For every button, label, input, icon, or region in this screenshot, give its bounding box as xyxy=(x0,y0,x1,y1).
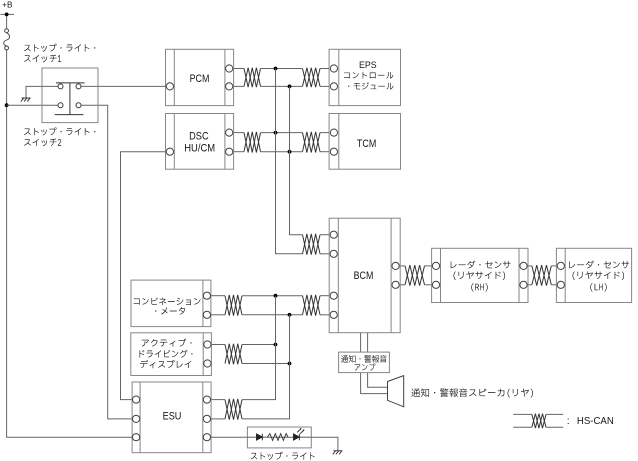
junction CAN-H trunk at ADD xyxy=(274,343,278,347)
wire +B rail upper segment xyxy=(6,14,8,28)
legend wire top right xyxy=(546,413,563,415)
module active driving display box xyxy=(131,333,212,376)
svg-text:HS-CAN: HS-CAN xyxy=(577,416,614,427)
wire CAN-H trunk upper xyxy=(276,69,303,254)
module EPS connector strip xyxy=(338,49,340,105)
module DSC HU/CM connector strip xyxy=(224,114,226,170)
wire into RH CAN-H xyxy=(425,265,432,267)
legend wire top xyxy=(513,413,532,415)
wire into RH CAN-L xyxy=(425,284,432,286)
module combination meter pin 2 xyxy=(203,311,210,318)
twisted pair DSC H/L left xyxy=(244,132,261,153)
module DSC HU/CM pin 1 xyxy=(166,148,173,155)
switch contact 1a xyxy=(58,84,63,89)
junction CAN-L trunk at PCM xyxy=(288,85,292,89)
label radar LH line3 xyxy=(590,283,606,291)
wire switch1 to ground xyxy=(26,86,58,97)
junction rail to switch2 xyxy=(5,103,9,107)
twisted pair PCM H/L right xyxy=(303,68,321,88)
module radar sensor LH connector strip xyxy=(564,248,566,302)
wire into LH CAN-L xyxy=(551,284,556,286)
wire into BCM pin4 xyxy=(320,314,329,316)
module radar sensor RH box xyxy=(432,248,528,302)
label amplifier line1 xyxy=(341,355,387,363)
module radar sensor RH pin 3 xyxy=(520,262,527,269)
wire stop light to ground xyxy=(311,437,338,450)
label stop light xyxy=(251,452,315,460)
wire amp to speaker minus xyxy=(361,373,388,394)
module BCM pin 4 xyxy=(330,311,337,318)
wire PCM to EPS CAN-L mid xyxy=(261,85,303,87)
label radar LH line2 xyxy=(573,271,625,280)
wire DSC to TCM CAN-L xyxy=(234,151,244,153)
twisted pair PCM H/L left xyxy=(244,68,261,88)
junction CAN-H trunk at combi xyxy=(274,294,278,298)
wire ESU CAN-L xyxy=(211,418,225,420)
wire ADD CAN-H xyxy=(211,344,225,346)
module DSC HU/CM connector strip xyxy=(173,114,175,170)
switch contact 2a xyxy=(58,103,63,108)
module EPS pin 2 xyxy=(330,83,337,90)
wire amp to speaker plus xyxy=(368,373,388,388)
svg-text::: : xyxy=(567,416,570,427)
wire combi CAN-L xyxy=(211,314,225,316)
twisted pair combi right xyxy=(303,295,321,316)
legend wire bottom xyxy=(513,426,532,428)
ground G1 xyxy=(21,98,31,102)
wire CAN-L trunk lower xyxy=(242,315,290,419)
label combination meter line1 xyxy=(134,297,201,305)
LED D2 xyxy=(294,434,300,441)
wire PCM to EPS CAN-L xyxy=(234,85,244,87)
twisted pair combi left xyxy=(225,295,242,316)
wire combi CAN-H xyxy=(211,295,225,297)
speaker SP1 xyxy=(388,376,404,407)
wire CAN-L into EPS xyxy=(320,85,329,87)
module radar sensor RH pin 2 xyxy=(432,281,439,288)
junction CAN-H trunk at PCM xyxy=(274,67,278,71)
svg-text:EPS: EPS xyxy=(359,60,377,71)
junction CAN-L trunk at ADD xyxy=(288,362,292,366)
label ADD line3 xyxy=(140,360,191,368)
wire into LH CAN-H xyxy=(551,265,556,267)
module PCM pin 1 xyxy=(166,83,173,90)
wire into BCM pin1 xyxy=(320,234,329,236)
label radar LH line1 xyxy=(569,261,629,269)
svg-text:TCM: TCM xyxy=(357,138,376,150)
module EPS box xyxy=(329,49,400,105)
module DSC HU/CM box xyxy=(166,114,234,170)
module BCM connector strip xyxy=(390,218,392,333)
junction CAN-L trunk at DSC xyxy=(288,150,292,154)
wire DSC to TCM CAN-L mid xyxy=(261,151,303,153)
module DSC HU/CM pin 2 xyxy=(226,129,233,136)
module ESU connector strip xyxy=(139,382,141,453)
wire into BCM pin2 xyxy=(320,253,329,255)
twisted pair ADD xyxy=(225,344,242,365)
module ESU pin 5 xyxy=(203,415,210,422)
junction CAN-L trunk at combi xyxy=(288,313,292,317)
legend twisted pair xyxy=(532,414,546,429)
switch armature link xyxy=(69,83,71,115)
module radar sensor RH pin 4 xyxy=(520,281,527,288)
svg-text:HU/CM: HU/CM xyxy=(184,142,215,154)
legend wire bottom right xyxy=(546,426,563,428)
module combination meter box xyxy=(131,280,211,327)
module radar sensor LH pin 1 xyxy=(557,262,564,269)
module BCM connector strip xyxy=(337,218,339,333)
label ADD line2 xyxy=(140,350,193,358)
module combination meter connector strip xyxy=(202,280,204,327)
label stop light switch2 line2 xyxy=(24,139,61,147)
svg-text:PCM: PCM xyxy=(190,73,210,85)
module BCM pin 6 xyxy=(392,281,399,288)
wire ESU CAN-H xyxy=(211,399,225,401)
label ADD line1 xyxy=(142,339,192,347)
module PCM pin 2 xyxy=(226,65,233,72)
svg-text:BCM: BCM xyxy=(354,270,374,282)
wire CAN-L into TCM xyxy=(320,151,329,153)
twisted pair BCM upper xyxy=(303,234,321,255)
switch contact 1b xyxy=(76,84,81,89)
wire BCM to amp right xyxy=(367,333,369,352)
module PCM pin 3 xyxy=(226,83,233,90)
label radar RH line3 xyxy=(471,283,487,291)
junction +B rail xyxy=(5,13,9,17)
wire +B feed bar xyxy=(1,13,15,15)
module ESU pin 2 xyxy=(133,415,140,422)
label stop light switch1 line1 xyxy=(24,44,95,52)
label amplifier line2 xyxy=(355,363,376,370)
wire +B rail to ESU xyxy=(7,50,133,437)
stop light box xyxy=(247,427,311,448)
module BCM pin 5 xyxy=(392,262,399,269)
module DSC HU/CM pin 3 xyxy=(226,148,233,155)
wire DSC to TCM CAN-H mid xyxy=(261,132,303,134)
wire CAN-H trunk lower xyxy=(242,296,276,400)
wire ADD CAN-L to trunk xyxy=(242,363,290,365)
module active driving display pin 1 xyxy=(204,341,211,348)
wire CAN-H into EPS xyxy=(320,68,329,70)
module active driving display connector strip xyxy=(202,333,204,376)
label radar RH line2 xyxy=(454,271,506,280)
wire BCM to RH CAN-L xyxy=(400,284,405,286)
module ESU pin 6 xyxy=(203,434,210,441)
module BCM pin 1 xyxy=(330,231,337,238)
wire switch2 to ESU xyxy=(81,105,132,419)
module TCM pin 1 xyxy=(330,129,337,136)
twisted pair ESU xyxy=(225,399,242,420)
wire switch1 to PCM xyxy=(81,85,167,87)
ground G2 xyxy=(333,451,343,455)
wire RH to LH CAN-H xyxy=(528,265,532,267)
wire into BCM pin3 xyxy=(320,295,329,297)
wire DSC to TCM CAN-H xyxy=(234,132,244,134)
label combination meter line2 xyxy=(155,307,185,314)
module radar sensor LH box xyxy=(556,248,631,302)
wire inside stop light xyxy=(247,436,311,438)
wire PCM to EPS CAN-H xyxy=(234,68,244,70)
junction CAN-H trunk at DSC xyxy=(274,131,278,135)
wire ESU to stop light xyxy=(211,436,247,438)
label stop light switch1 line2 xyxy=(24,55,61,63)
twisted pair DSC H/L right xyxy=(303,132,321,153)
switch armature lower bar xyxy=(55,114,84,116)
module TCM connector strip xyxy=(338,114,340,170)
label speaker xyxy=(411,388,533,397)
wire BCM to RH CAN-H xyxy=(400,265,405,267)
circuit breaker squiggle xyxy=(4,33,10,46)
diode D1 xyxy=(257,434,263,441)
module BCM box xyxy=(329,218,400,333)
wire CAN-H into TCM xyxy=(320,132,329,134)
switch armature upper bar xyxy=(56,82,85,84)
module radar sensor LH pin 2 xyxy=(557,281,564,288)
label radar RH line1 xyxy=(451,261,511,269)
module BCM pin 2 xyxy=(330,250,337,257)
wire BCM to amp left xyxy=(360,333,362,352)
module ESU pin 1 xyxy=(133,396,140,403)
label EPS line2 xyxy=(344,72,393,79)
switch contact 2b xyxy=(76,103,81,108)
wire RH to LH CAN-L xyxy=(528,284,532,286)
svg-text:DSC: DSC xyxy=(189,130,209,142)
module ESU pin 4 xyxy=(203,396,210,403)
module radar sensor RH pin 1 xyxy=(432,262,439,269)
module TCM pin 2 xyxy=(330,148,337,155)
module active driving display pin 2 xyxy=(204,360,211,367)
module PCM connector strip xyxy=(224,49,226,105)
wire DSC to ESU xyxy=(121,152,167,400)
module EPS pin 1 xyxy=(330,65,337,72)
svg-text:+B: +B xyxy=(2,1,13,10)
label stop light switch2 line1 xyxy=(24,127,95,135)
module radar sensor RH connector strip xyxy=(440,248,442,302)
stop light switch box xyxy=(42,68,98,123)
circuit breaker terminal upper xyxy=(5,29,9,33)
wire PCM to EPS CAN-H mid xyxy=(261,68,303,70)
module combination meter pin 1 xyxy=(203,292,210,299)
module ESU connector strip xyxy=(202,382,204,453)
svg-text:ESU: ESU xyxy=(163,411,182,423)
module ESU box xyxy=(132,382,211,453)
module BCM pin 3 xyxy=(330,292,337,299)
module PCM box xyxy=(166,49,234,105)
wire ADD CAN-H to trunk xyxy=(242,344,276,346)
module PCM connector strip xyxy=(173,49,175,105)
resistor R1 xyxy=(268,434,289,441)
wire CAN-L trunk upper xyxy=(290,86,303,234)
twisted pair BCM-RH xyxy=(405,265,425,286)
wire combi CAN-L mid xyxy=(242,314,303,316)
circuit breaker terminal lower xyxy=(5,46,9,50)
twisted pair RH-LH xyxy=(532,265,551,286)
amplifier box xyxy=(339,352,390,373)
wire switch2 feed xyxy=(7,104,59,106)
wire combi CAN-H mid xyxy=(242,295,303,297)
module radar sensor RH connector strip xyxy=(518,248,520,302)
module ESU pin 3 xyxy=(133,434,140,441)
module TCM box xyxy=(329,114,400,170)
label EPS line3 xyxy=(348,82,393,89)
